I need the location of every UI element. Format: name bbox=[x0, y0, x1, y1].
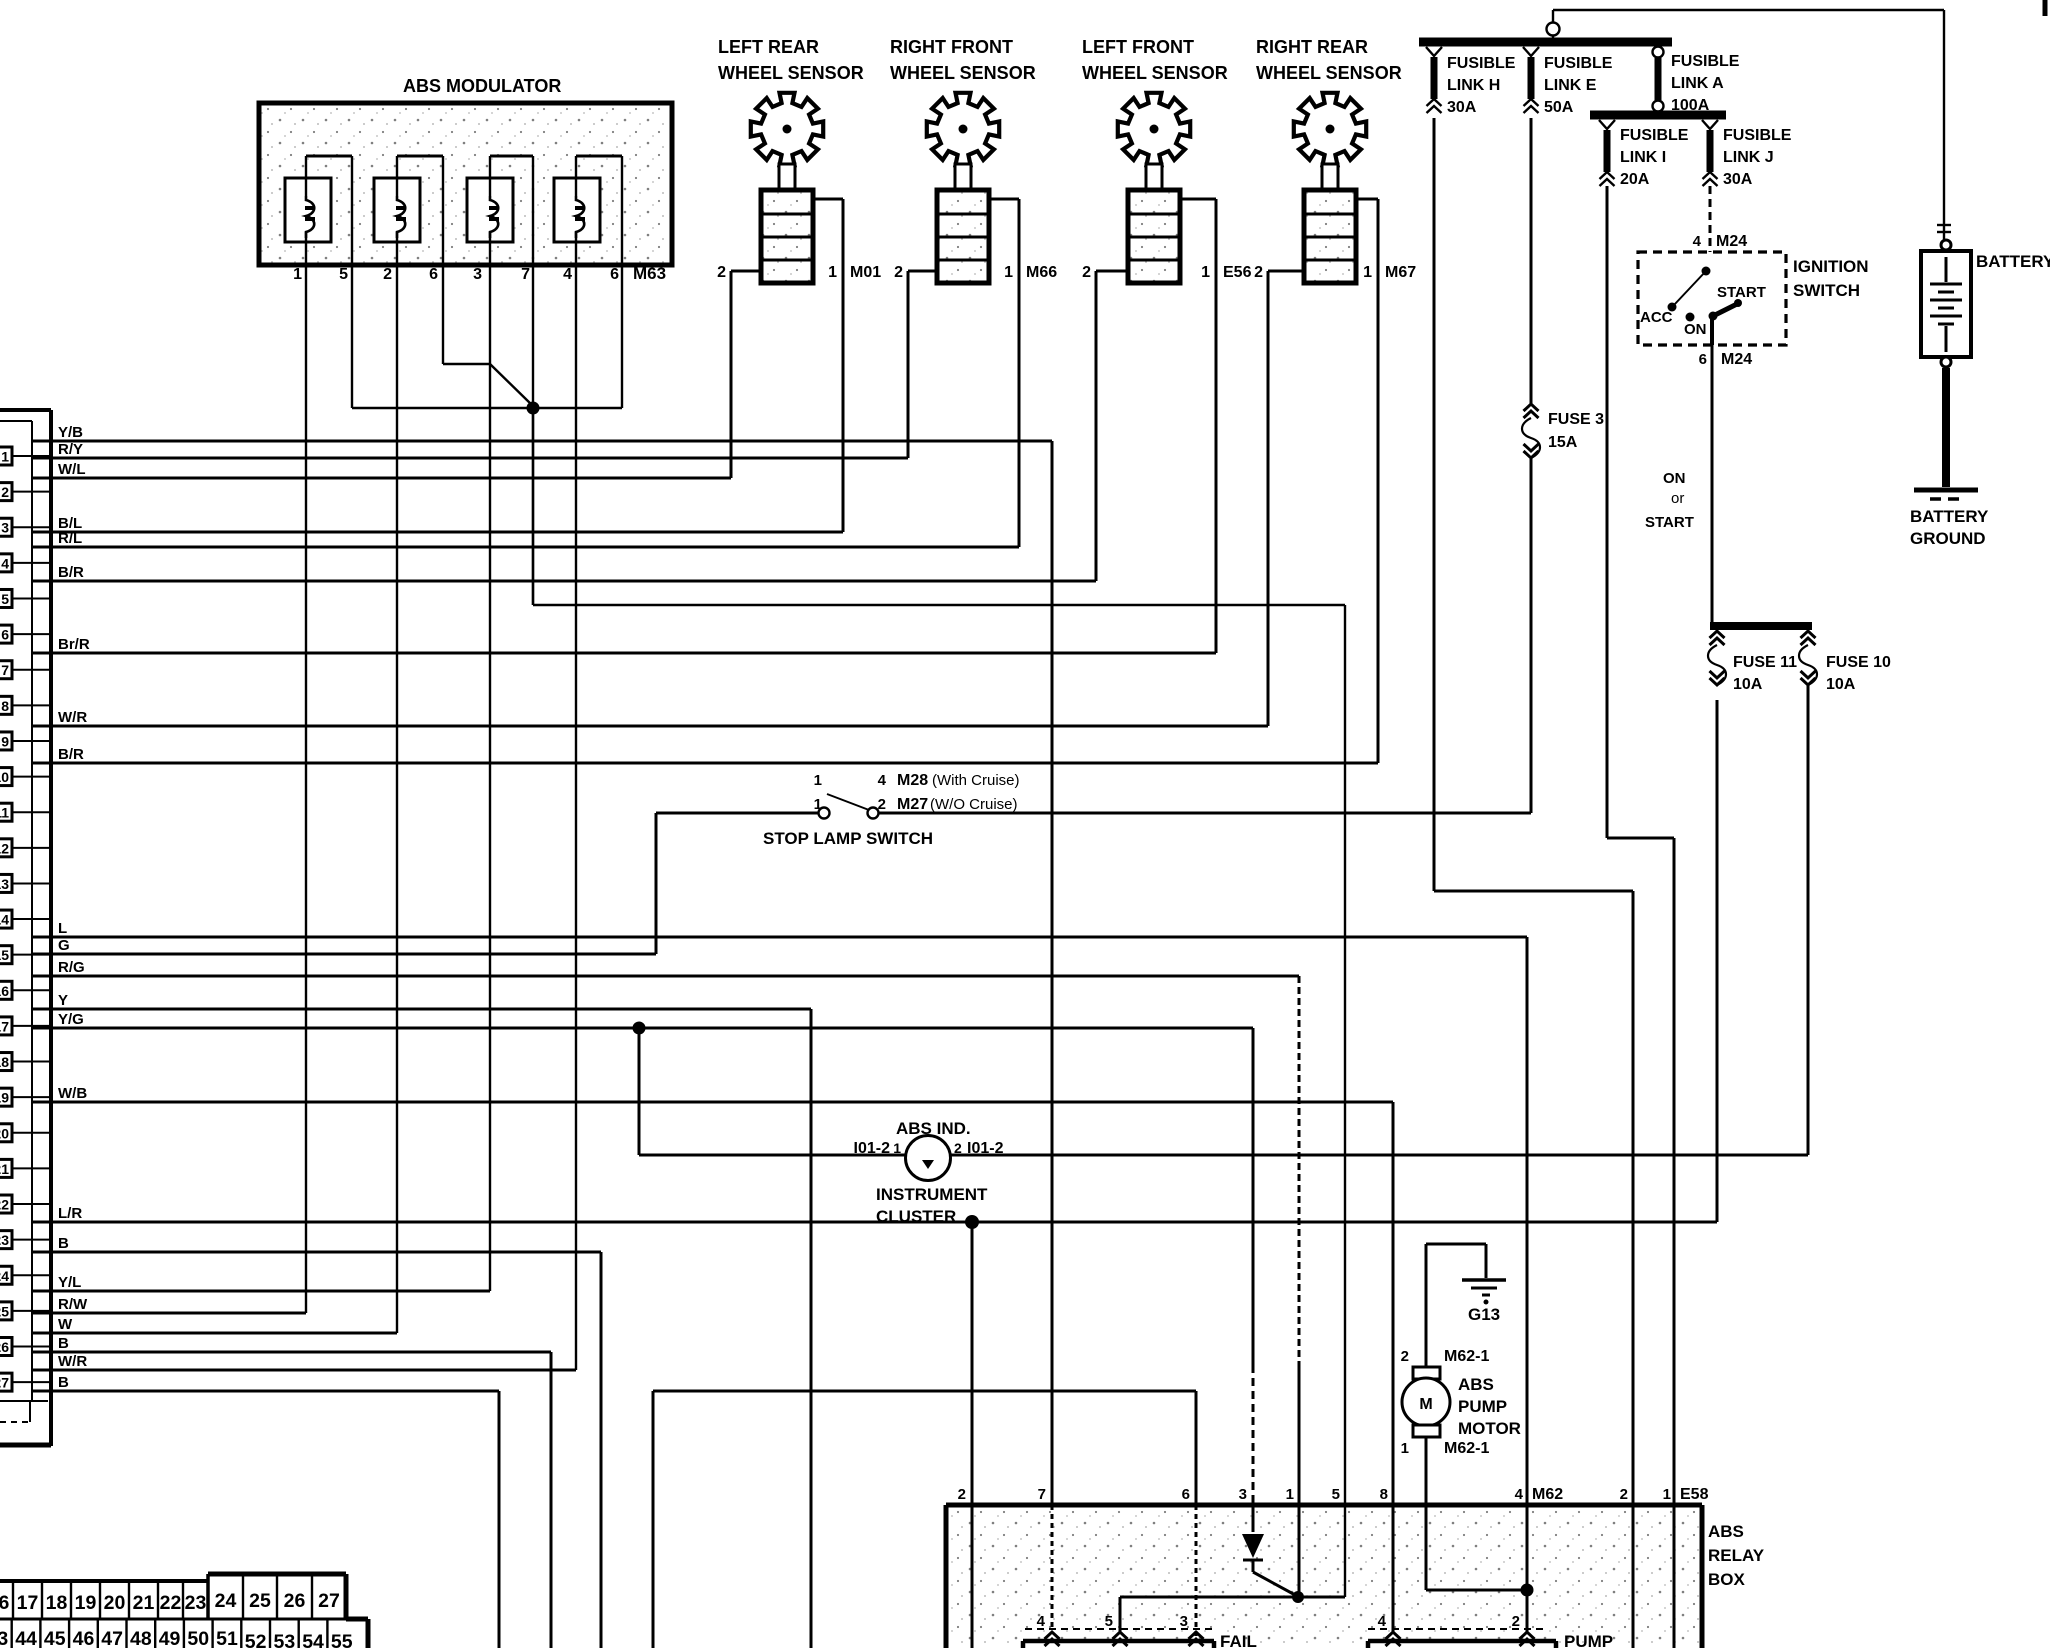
svg-text:Br/R: Br/R bbox=[58, 636, 90, 653]
svg-text:20A: 20A bbox=[1620, 171, 1650, 188]
modulator pin 4 wire bbox=[575, 156, 577, 1370]
svg-text:(With Cruise): (With Cruise) bbox=[932, 772, 1020, 789]
svg-text:BATTERY: BATTERY bbox=[1976, 252, 2050, 271]
svg-text:G13: G13 bbox=[1468, 1305, 1500, 1324]
svg-text:3: 3 bbox=[1239, 1486, 1247, 1503]
connector pin 1 bbox=[0, 447, 51, 465]
wire pin 7 feed chevron bbox=[1051, 1505, 1054, 1628]
svg-text:WHEEL SENSOR: WHEEL SENSOR bbox=[890, 63, 1036, 83]
svg-text:W/R: W/R bbox=[58, 1353, 87, 1370]
wheel sensor E56 (left front) bbox=[1082, 37, 1228, 283]
svg-text:W/L: W/L bbox=[58, 461, 86, 478]
modulator pin 6 wire bbox=[621, 156, 623, 408]
bus bar fuse 11/10 bus bbox=[1710, 622, 1812, 630]
wire B row y=1352 bbox=[32, 1335, 551, 1352]
fusible link H 30A bbox=[1426, 47, 1516, 116]
modulator pin 6 wire bbox=[442, 156, 444, 364]
wire ABS indicator feed from Y/G junction bbox=[638, 1028, 641, 1155]
svg-text:RIGHT REAR: RIGHT REAR bbox=[1256, 37, 1368, 57]
svg-text:B/R: B/R bbox=[58, 564, 84, 581]
connector pin 21 bbox=[0, 1159, 51, 1177]
svg-text:LEFT REAR: LEFT REAR bbox=[718, 37, 819, 57]
svg-text:INSTRUMENT: INSTRUMENT bbox=[876, 1185, 988, 1204]
svg-text:23: 23 bbox=[185, 1592, 207, 1614]
connector pin 4 bbox=[0, 554, 51, 572]
svg-text:5: 5 bbox=[1332, 1486, 1340, 1503]
wire fail safe relay coil bus bbox=[1120, 1597, 1345, 1633]
wire B pin23 vertical down to page bottom bbox=[600, 1252, 603, 1648]
connector pin 14 bbox=[0, 910, 51, 928]
svg-text:2: 2 bbox=[1254, 264, 1263, 281]
svg-text:Y/L: Y/L bbox=[58, 1274, 81, 1291]
wire modulator solenoid common bus bbox=[352, 364, 1345, 1597]
wire fusible link H output bbox=[1434, 118, 1633, 1648]
svg-text:10: 10 bbox=[0, 769, 9, 785]
svg-text:M27: M27 bbox=[897, 796, 928, 813]
ground G13 bbox=[1426, 1244, 1506, 1324]
svg-text:26: 26 bbox=[284, 1590, 306, 1612]
svg-text:52: 52 bbox=[245, 1631, 267, 1648]
svg-text:24: 24 bbox=[215, 1590, 237, 1612]
sensor E56 pin 2 stub bbox=[1082, 264, 1128, 281]
connector pin 5 bbox=[0, 589, 51, 607]
svg-text:I01-2: I01-2 bbox=[854, 1140, 891, 1157]
node ON or START label bbox=[1645, 470, 1694, 531]
svg-text:24: 24 bbox=[0, 1268, 9, 1284]
fuse FUSE 11 10A bbox=[1708, 631, 1797, 693]
wire W/R row y=726 bbox=[32, 709, 1268, 726]
sensor E56 pin 1 stub bbox=[1180, 199, 1216, 281]
svg-text:(W/O Cruise): (W/O Cruise) bbox=[930, 796, 1018, 813]
connector pin 25 bbox=[0, 1302, 51, 1320]
svg-text:Y/G: Y/G bbox=[58, 1011, 84, 1028]
wire R/L row y=547 bbox=[32, 530, 1019, 547]
svg-text:1: 1 bbox=[1, 449, 9, 465]
svg-text:6: 6 bbox=[610, 266, 619, 283]
wire R/G vertical down to ABS relay box pin 1 bbox=[1298, 976, 1301, 1597]
node L/R junction to instrument cluster bbox=[965, 1215, 979, 1229]
relay fail safe relay coil (cut) bbox=[1023, 1613, 1257, 1648]
wheel sensor M67 (right rear) bbox=[1256, 37, 1402, 283]
connector pin 27 bbox=[0, 1373, 51, 1391]
svg-text:1: 1 bbox=[293, 266, 302, 283]
svg-text:4: 4 bbox=[878, 772, 887, 789]
svg-text:11: 11 bbox=[0, 805, 9, 821]
wire B/R row y=581 bbox=[32, 564, 1096, 581]
wire B/L row y=532 bbox=[32, 515, 843, 532]
svg-text:R/Y: R/Y bbox=[58, 441, 83, 458]
wire Br/R row y=653 bbox=[32, 636, 1216, 653]
svg-text:WHEEL SENSOR: WHEEL SENSOR bbox=[718, 63, 864, 83]
svg-text:LINK E: LINK E bbox=[1544, 77, 1597, 94]
svg-text:LINK J: LINK J bbox=[1723, 149, 1774, 166]
svg-text:4: 4 bbox=[1515, 1486, 1524, 1503]
stop lamp switch bbox=[656, 772, 1531, 848]
ignition switch pin 6 output bbox=[1699, 316, 1753, 622]
svg-text:M24: M24 bbox=[1721, 351, 1752, 368]
wire fusible link I output bbox=[1607, 186, 1674, 1648]
wire B/R vertical up to right rear wheel sensor pin 1 bbox=[1377, 199, 1380, 763]
svg-text:Y/B: Y/B bbox=[58, 424, 83, 441]
wire W/B vertical down to ABS relay box pin 8 bbox=[1392, 1102, 1395, 1633]
svg-text:46: 46 bbox=[73, 1628, 95, 1648]
connector pin 2 bbox=[0, 483, 51, 501]
svg-text:53: 53 bbox=[273, 1631, 295, 1648]
svg-text:7: 7 bbox=[1038, 1486, 1046, 1503]
wire L vertical down to ABS relay box pin 4 M62 bbox=[1526, 937, 1529, 1634]
svg-text:ON: ON bbox=[1684, 321, 1707, 338]
svg-text:START: START bbox=[1645, 514, 1694, 531]
connector pin 26 bbox=[0, 1338, 51, 1356]
svg-text:5: 5 bbox=[1105, 1613, 1113, 1630]
wire R/G row y=976 bbox=[32, 959, 1299, 976]
svg-text:1: 1 bbox=[814, 772, 822, 789]
connector pin 12 bbox=[0, 839, 51, 857]
svg-text:MOTOR: MOTOR bbox=[1458, 1419, 1521, 1438]
modulator pin numbers and connector M63 bbox=[293, 264, 666, 283]
svg-text:M63: M63 bbox=[633, 264, 666, 283]
svg-text:2: 2 bbox=[1620, 1486, 1628, 1503]
relay pump relay coil (cut) bbox=[1368, 1613, 1613, 1648]
svg-text:FUSIBLE: FUSIBLE bbox=[1447, 55, 1516, 72]
svg-text:44: 44 bbox=[15, 1628, 37, 1648]
wire Y/B vertical to ABS relay box pin 7 bbox=[1051, 441, 1054, 1505]
wire G row y=954 bbox=[32, 937, 656, 954]
wire Y vertical down to page bottom bbox=[810, 1009, 813, 1648]
svg-text:M62-1: M62-1 bbox=[1444, 1348, 1489, 1365]
connector pin 6 bbox=[0, 625, 51, 643]
svg-text:ACC: ACC bbox=[1640, 309, 1673, 326]
svg-text:1: 1 bbox=[1401, 1440, 1409, 1457]
fusible link I 20A bbox=[1599, 120, 1689, 188]
svg-text:45: 45 bbox=[44, 1628, 66, 1648]
svg-text:12: 12 bbox=[0, 840, 9, 856]
solenoid valve coil L2 in ABS modulator bbox=[374, 156, 443, 242]
svg-text:2: 2 bbox=[717, 264, 726, 281]
svg-text:27: 27 bbox=[318, 1590, 340, 1612]
wire W/B row y=1102 bbox=[32, 1085, 1393, 1102]
svg-text:M01: M01 bbox=[850, 264, 881, 281]
wire Y/B row y=441 bbox=[32, 424, 1052, 441]
connector pin 15 bbox=[0, 946, 51, 964]
svg-text:R/W: R/W bbox=[58, 1296, 88, 1313]
wire B/R row y=763 bbox=[32, 746, 1378, 763]
svg-text:FAIL: FAIL bbox=[1220, 1632, 1257, 1648]
wire R/L vertical up to right front wheel sensor pin 1 bbox=[1018, 199, 1021, 547]
svg-text:4: 4 bbox=[1037, 1613, 1046, 1630]
svg-text:START: START bbox=[1717, 284, 1766, 301]
connector strip pins 43-55 bbox=[0, 1619, 368, 1648]
svg-text:2: 2 bbox=[1401, 1348, 1409, 1365]
svg-text:16: 16 bbox=[0, 1592, 9, 1614]
svg-text:M24: M24 bbox=[1716, 233, 1747, 250]
wire Y/G row y=1028 bbox=[32, 1011, 1253, 1028]
node motor/pin4 junction bbox=[1521, 1584, 1534, 1597]
wire fusible link J output to ignition switch pin 4 bbox=[1693, 186, 1748, 252]
svg-text:30A: 30A bbox=[1723, 171, 1753, 188]
wire Y row y=1009 bbox=[32, 992, 811, 1009]
wire R/W row y=1313 bbox=[32, 1296, 306, 1313]
svg-text:6: 6 bbox=[1, 627, 9, 643]
svg-text:or: or bbox=[1671, 490, 1684, 507]
svg-text:30A: 30A bbox=[1447, 99, 1477, 116]
svg-text:BOX: BOX bbox=[1708, 1570, 1746, 1589]
wire FUSE 3 output down to stop lamp switch bbox=[1530, 458, 1533, 813]
fusible link A 100A bbox=[1653, 47, 1740, 115]
svg-text:43: 43 bbox=[0, 1628, 8, 1648]
svg-text:PUMP: PUMP bbox=[1458, 1397, 1507, 1416]
wheel sensor M01 (left rear) bbox=[718, 37, 864, 283]
svg-text:2: 2 bbox=[383, 266, 392, 283]
wire B/R vertical up to left front wheel sensor pin 2 bbox=[1095, 271, 1098, 581]
fusible link E 50A bbox=[1523, 47, 1613, 116]
svg-text:10A: 10A bbox=[1733, 676, 1763, 693]
connector pin 3 bbox=[0, 518, 51, 536]
svg-text:26: 26 bbox=[0, 1339, 9, 1355]
svg-text:Y: Y bbox=[58, 992, 68, 1009]
svg-text:7: 7 bbox=[1, 662, 9, 678]
svg-text:21: 21 bbox=[0, 1161, 9, 1177]
svg-text:ON: ON bbox=[1663, 470, 1686, 487]
svg-text:20: 20 bbox=[104, 1592, 126, 1614]
modulator pin 5 wire bbox=[351, 156, 353, 408]
sensor M01 pin 2 stub bbox=[717, 264, 761, 281]
wire Y/L row y=1291 bbox=[32, 1274, 490, 1291]
svg-text:20: 20 bbox=[0, 1125, 9, 1141]
modulator pin 3 wire bbox=[489, 156, 491, 1291]
svg-text:3: 3 bbox=[1180, 1613, 1188, 1630]
wire battery positive feed (top) bbox=[1553, 10, 1944, 240]
wire B pin26 vertical down to page bottom bbox=[550, 1352, 553, 1648]
svg-text:4: 4 bbox=[1378, 1613, 1387, 1630]
svg-text:8: 8 bbox=[1, 698, 9, 714]
svg-text:LEFT FRONT: LEFT FRONT bbox=[1082, 37, 1194, 57]
svg-text:2: 2 bbox=[1082, 264, 1091, 281]
svg-text:2: 2 bbox=[1512, 1613, 1520, 1630]
svg-text:25: 25 bbox=[249, 1590, 271, 1612]
svg-text:5: 5 bbox=[339, 266, 348, 283]
wire L/R branch down to ABS relay box pin 2 bbox=[971, 1222, 974, 1648]
svg-text:51: 51 bbox=[216, 1628, 238, 1648]
solenoid valve coil L1 in ABS modulator bbox=[285, 156, 352, 242]
connector pin 9 bbox=[0, 732, 51, 750]
diode in ABS relay box bbox=[1242, 1534, 1297, 1596]
svg-text:LINK I: LINK I bbox=[1620, 149, 1666, 166]
connector pin 16 bbox=[0, 981, 51, 999]
connector pin 13 bbox=[0, 874, 51, 892]
svg-text:M62: M62 bbox=[1532, 1486, 1563, 1503]
svg-text:1: 1 bbox=[1004, 264, 1013, 281]
wire W/R vertical up to right rear wheel sensor pin 2 bbox=[1267, 271, 1270, 726]
svg-text:FUSE 3: FUSE 3 bbox=[1548, 411, 1604, 428]
svg-text:22: 22 bbox=[0, 1197, 9, 1213]
svg-text:STOP LAMP SWITCH: STOP LAMP SWITCH bbox=[763, 829, 933, 848]
svg-text:M62-1: M62-1 bbox=[1444, 1440, 1489, 1457]
svg-text:SWITCH: SWITCH bbox=[1793, 281, 1860, 300]
svg-text:1: 1 bbox=[1363, 264, 1372, 281]
svg-text:B: B bbox=[58, 1235, 69, 1252]
svg-text:R/L: R/L bbox=[58, 530, 82, 547]
svg-text:5: 5 bbox=[1, 591, 9, 607]
wire pin 6 feed from page bottom bbox=[653, 1391, 1196, 1648]
svg-text:15: 15 bbox=[0, 947, 9, 963]
svg-text:1: 1 bbox=[814, 796, 822, 813]
connector pin 11 bbox=[0, 803, 51, 821]
svg-text:FUSE 10: FUSE 10 bbox=[1826, 654, 1891, 671]
svg-text:RELAY: RELAY bbox=[1708, 1546, 1765, 1565]
svg-text:1: 1 bbox=[1663, 1486, 1671, 1503]
svg-text:48: 48 bbox=[130, 1628, 152, 1648]
solenoid valve coil L4 in ABS modulator bbox=[554, 156, 622, 242]
svg-text:W/B: W/B bbox=[58, 1085, 87, 1102]
svg-text:2: 2 bbox=[954, 1140, 962, 1156]
svg-text:15A: 15A bbox=[1548, 434, 1578, 451]
wire Br/R vertical up to left front wheel sensor pin 1 bbox=[1215, 199, 1218, 653]
svg-text:GROUND: GROUND bbox=[1910, 529, 1986, 548]
connector strip pins 16-27 bbox=[0, 1574, 346, 1619]
svg-text:49: 49 bbox=[159, 1628, 181, 1648]
svg-text:16: 16 bbox=[0, 983, 9, 999]
svg-text:6: 6 bbox=[1699, 351, 1707, 368]
svg-text:LINK A: LINK A bbox=[1671, 75, 1724, 92]
wire W/L row y=478 bbox=[32, 461, 731, 478]
connector pin 19 bbox=[0, 1088, 51, 1106]
svg-text:17: 17 bbox=[0, 1018, 9, 1034]
svg-text:M28: M28 bbox=[897, 772, 928, 789]
svg-text:IGNITION: IGNITION bbox=[1793, 257, 1869, 276]
svg-text:47: 47 bbox=[101, 1628, 123, 1648]
svg-text:M: M bbox=[1419, 1396, 1432, 1413]
modulator pin 1 wire bbox=[305, 156, 307, 1313]
svg-text:8: 8 bbox=[1380, 1486, 1388, 1503]
battery bbox=[1921, 240, 2050, 357]
svg-text:18: 18 bbox=[0, 1054, 9, 1070]
sensor M66 pin 2 stub bbox=[894, 264, 937, 281]
sensor M66 pin 1 stub bbox=[989, 199, 1019, 281]
wire W/R row y=1370 bbox=[32, 1353, 576, 1370]
connector pin 22 bbox=[0, 1195, 51, 1213]
wire B row y=1252 bbox=[32, 1235, 601, 1252]
node diode junction bbox=[1292, 1591, 1304, 1603]
svg-text:22: 22 bbox=[160, 1592, 182, 1614]
wire B/L vertical up to left rear wheel sensor pin 1 bbox=[842, 199, 845, 532]
svg-text:10A: 10A bbox=[1826, 676, 1856, 693]
svg-text:W/R: W/R bbox=[58, 709, 87, 726]
battery feed chevron marks bbox=[1937, 225, 1951, 232]
wire motor pin 1 to pump relay bbox=[1426, 1437, 1527, 1590]
svg-text:WHEEL SENSOR: WHEEL SENSOR bbox=[1082, 63, 1228, 83]
svg-text:2: 2 bbox=[1, 484, 9, 500]
svg-text:50A: 50A bbox=[1544, 99, 1574, 116]
wire fusible link E output to FUSE 3 bbox=[1530, 118, 1533, 404]
svg-text:L/R: L/R bbox=[58, 1205, 82, 1222]
wire B pin27 vertical down to page bottom bbox=[498, 1391, 501, 1648]
sensor M01 pin 1 stub bbox=[813, 199, 843, 281]
wire Y/G vertical down to diode in ABS relay box bbox=[1252, 1028, 1255, 1532]
sensor M67 pin 1 stub bbox=[1356, 199, 1378, 281]
svg-text:FUSIBLE: FUSIBLE bbox=[1723, 127, 1792, 144]
wire R/Y row y=458 bbox=[32, 441, 908, 458]
connector pin 20 bbox=[0, 1124, 51, 1142]
ABS relay box bbox=[946, 1505, 1765, 1648]
node Y/G junction to ABS indicator bbox=[633, 1022, 646, 1035]
svg-text:55: 55 bbox=[331, 1631, 353, 1648]
connector pin 10 bbox=[0, 768, 51, 786]
svg-text:3: 3 bbox=[1, 520, 9, 536]
wire G vertical up to stop lamp switch bbox=[655, 813, 658, 954]
svg-text:21: 21 bbox=[133, 1592, 155, 1614]
svg-text:9: 9 bbox=[1, 733, 9, 749]
svg-text:E58: E58 bbox=[1680, 1486, 1709, 1503]
svg-text:B: B bbox=[58, 1335, 69, 1352]
connector pin 7 bbox=[0, 661, 51, 679]
svg-text:R/G: R/G bbox=[58, 959, 85, 976]
ignition switch (dashed box) bbox=[1638, 252, 1869, 345]
wire W row y=1333 bbox=[32, 1316, 397, 1333]
wire L/R vertical up to FUSE 11 bbox=[1716, 700, 1719, 1222]
fusible link J 30A bbox=[1702, 120, 1792, 188]
lamp ABS indicator in instrument cluster bbox=[639, 1119, 1808, 1226]
connector block ABS control unit (left edge, cut off) bbox=[0, 410, 51, 1446]
svg-text:3: 3 bbox=[473, 266, 482, 283]
fuse FUSE 3 15A bbox=[1522, 404, 1604, 458]
ABS modulator box M63 bbox=[259, 76, 672, 265]
svg-text:B: B bbox=[58, 1374, 69, 1391]
wheel sensor M66 (right front) bbox=[890, 37, 1036, 283]
bus bar secondary fusible link bus bbox=[1590, 111, 1726, 120]
svg-text:4: 4 bbox=[1, 555, 9, 571]
svg-text:50: 50 bbox=[187, 1628, 209, 1648]
connector pin 23 bbox=[0, 1231, 51, 1249]
svg-text:18: 18 bbox=[46, 1592, 68, 1614]
svg-text:ABS: ABS bbox=[1708, 1522, 1744, 1541]
svg-text:1: 1 bbox=[1286, 1486, 1294, 1503]
svg-text:FUSIBLE: FUSIBLE bbox=[1620, 127, 1689, 144]
svg-text:14: 14 bbox=[0, 912, 9, 928]
svg-text:7: 7 bbox=[521, 266, 530, 283]
svg-text:25: 25 bbox=[0, 1303, 9, 1319]
svg-text:13: 13 bbox=[0, 876, 9, 892]
motor ABS pump motor M62-1 bbox=[1401, 1244, 1521, 1457]
svg-text:1: 1 bbox=[1201, 264, 1210, 281]
battery ground bbox=[1910, 357, 1989, 548]
svg-text:19: 19 bbox=[0, 1090, 9, 1106]
svg-text:ABS MODULATOR: ABS MODULATOR bbox=[403, 76, 561, 96]
svg-text:B/R: B/R bbox=[58, 746, 84, 763]
svg-text:4: 4 bbox=[563, 266, 572, 283]
wire FUSE 10 output down to ABS indicator bbox=[1807, 685, 1810, 1155]
svg-text:2: 2 bbox=[894, 264, 903, 281]
svg-text:G: G bbox=[58, 937, 70, 954]
solenoid valve coil L3 in ABS modulator bbox=[467, 156, 533, 242]
svg-text:M66: M66 bbox=[1026, 264, 1057, 281]
svg-text:2: 2 bbox=[958, 1486, 966, 1503]
svg-text:ABS IND.: ABS IND. bbox=[896, 1119, 971, 1138]
svg-text:BATTERY: BATTERY bbox=[1910, 507, 1989, 526]
sensor M67 pin 2 stub bbox=[1254, 264, 1304, 281]
svg-text:1: 1 bbox=[893, 1140, 901, 1156]
connector pin 8 bbox=[0, 696, 51, 714]
wire W/L vertical up to left rear wheel sensor pin 2 bbox=[730, 271, 733, 478]
svg-text:CLUSTER: CLUSTER bbox=[876, 1207, 956, 1226]
svg-text:6: 6 bbox=[1182, 1486, 1190, 1503]
svg-text:2: 2 bbox=[878, 796, 886, 813]
svg-text:1: 1 bbox=[828, 264, 837, 281]
svg-text:I01-2: I01-2 bbox=[967, 1140, 1004, 1157]
node battery feed to fusible link bus bbox=[1547, 23, 1560, 36]
page edge artifact top right bbox=[2043, 0, 2048, 16]
svg-text:19: 19 bbox=[75, 1592, 97, 1614]
